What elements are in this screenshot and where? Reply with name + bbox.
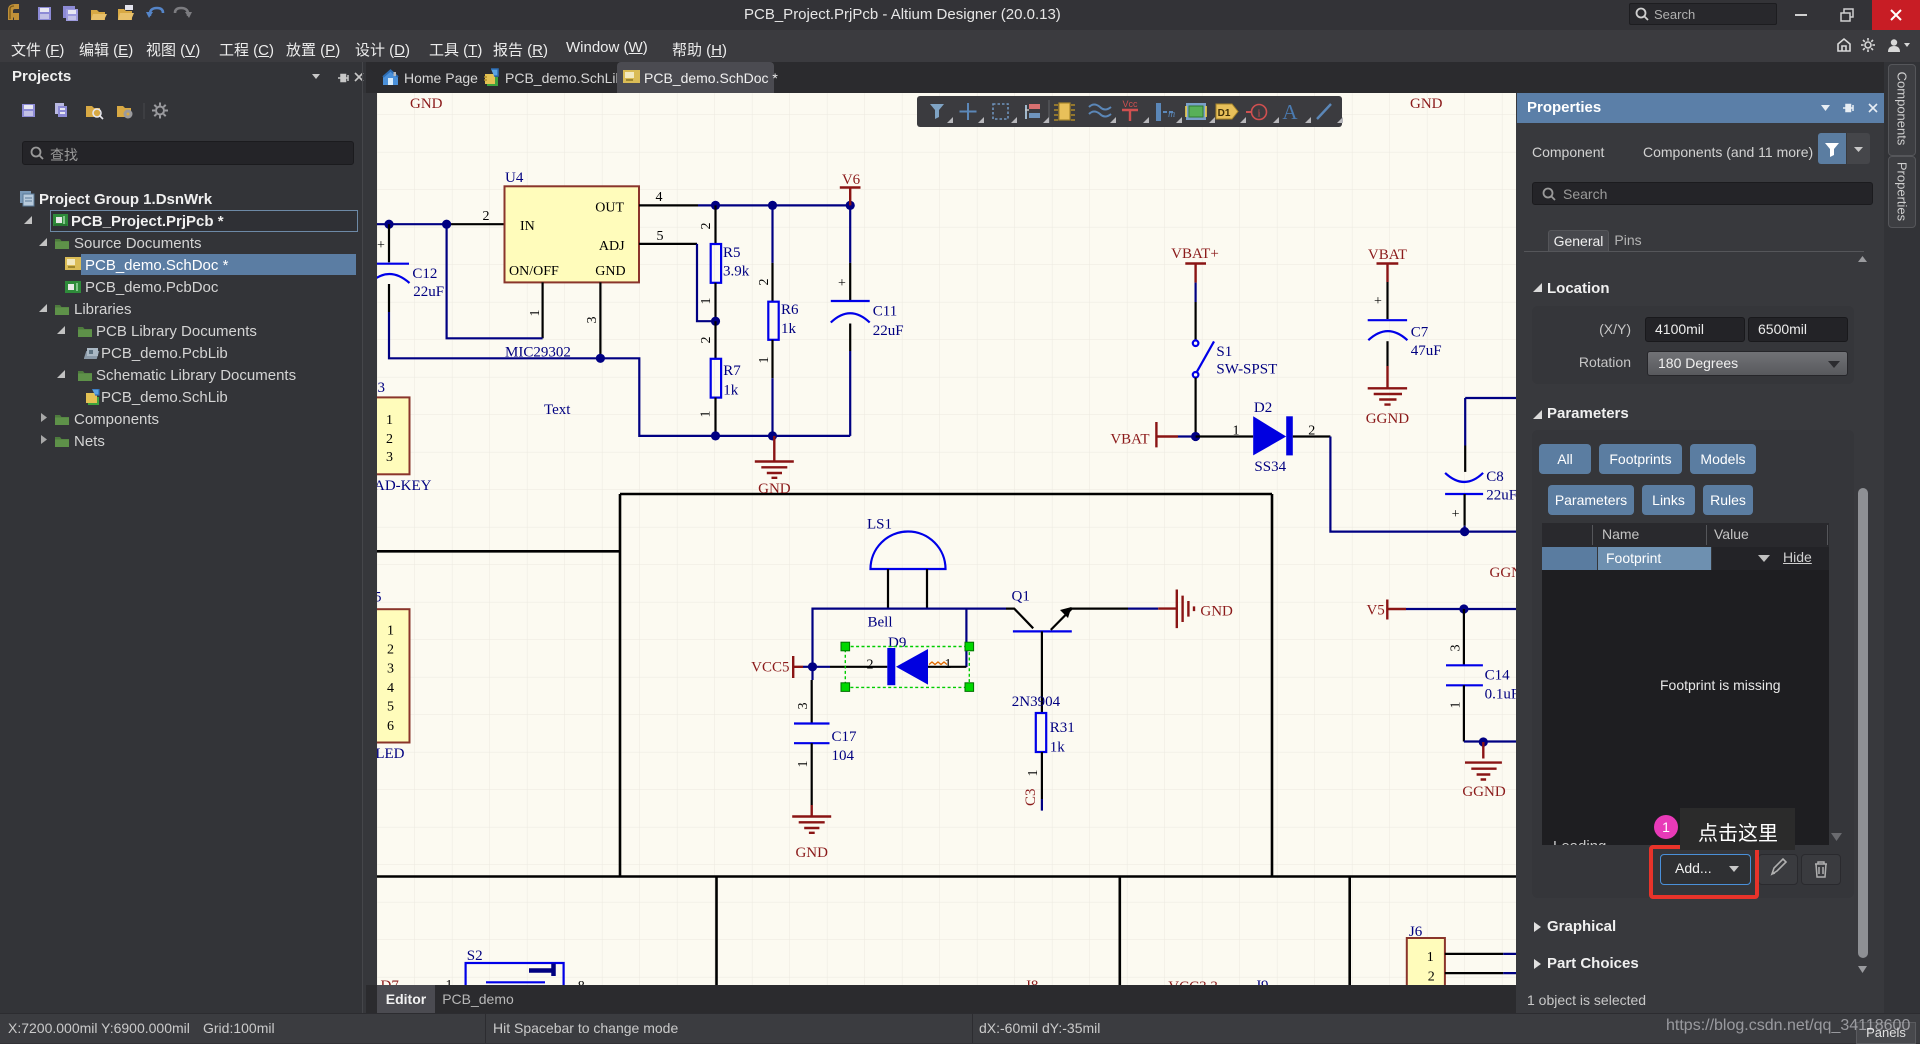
- svg-text:IN: IN: [520, 219, 535, 234]
- svg-text:104: 104: [832, 748, 855, 764]
- svg-text:1: 1: [1026, 770, 1041, 777]
- svg-text:GND: GND: [1410, 96, 1443, 112]
- svg-text:V6: V6: [842, 172, 861, 188]
- svg-text:47uF: 47uF: [1411, 343, 1442, 359]
- svg-text:4: 4: [656, 190, 663, 205]
- svg-text:2: 2: [757, 279, 772, 286]
- svg-text:m: m: [1168, 109, 1175, 120]
- svg-text:1: 1: [945, 657, 952, 672]
- svg-text:2: 2: [699, 223, 714, 230]
- svg-text:U4: U4: [505, 170, 524, 186]
- svg-text:1: 1: [387, 624, 394, 639]
- svg-text:2: 2: [386, 432, 393, 447]
- svg-text:C7: C7: [1411, 325, 1429, 341]
- svg-text:+: +: [377, 238, 385, 253]
- svg-text:C17: C17: [832, 729, 858, 745]
- svg-text:+: +: [838, 276, 846, 291]
- svg-text:5: 5: [387, 700, 394, 715]
- svg-text:VBAT: VBAT: [1368, 247, 1407, 263]
- svg-text:1: 1: [446, 978, 453, 985]
- svg-text:+: +: [1374, 294, 1382, 309]
- svg-text:Text: Text: [544, 402, 571, 418]
- svg-text:OLED: OLED: [377, 746, 405, 762]
- svg-text:J9: J9: [1255, 978, 1268, 985]
- svg-text:3: 3: [1449, 645, 1464, 652]
- svg-text:GGND: GGND: [1366, 411, 1409, 427]
- svg-text:D2: D2: [1254, 400, 1272, 416]
- svg-text:A: A: [1282, 100, 1298, 124]
- svg-text:GND: GND: [410, 96, 443, 112]
- svg-text:1k: 1k: [1050, 740, 1066, 756]
- svg-text:3.9k: 3.9k: [723, 264, 750, 280]
- svg-text:0.1uF: 0.1uF: [1485, 687, 1516, 703]
- svg-text:1: 1: [1449, 702, 1464, 709]
- svg-text:GND: GND: [1200, 604, 1233, 620]
- svg-text:1: 1: [796, 761, 811, 768]
- svg-text:GND: GND: [758, 481, 791, 497]
- svg-text:i: i: [1257, 108, 1260, 120]
- svg-text:1: 1: [1427, 950, 1434, 965]
- svg-text:J8: J8: [1025, 978, 1038, 985]
- svg-text:2: 2: [1428, 970, 1435, 985]
- svg-text:Bell: Bell: [868, 615, 893, 631]
- svg-text:1: 1: [699, 298, 714, 305]
- svg-text:ON/OFF: ON/OFF: [509, 264, 559, 279]
- svg-text:MIC29302: MIC29302: [505, 345, 571, 361]
- svg-text:R5: R5: [723, 245, 741, 261]
- svg-text:VBAT+: VBAT+: [1171, 246, 1219, 262]
- svg-text:4: 4: [387, 681, 394, 696]
- svg-text:2N3904: 2N3904: [1012, 694, 1061, 710]
- svg-text:1: 1: [757, 357, 772, 364]
- svg-text:C12: C12: [412, 266, 437, 282]
- svg-text:GND: GND: [795, 845, 828, 861]
- svg-text:1: 1: [1233, 424, 1240, 439]
- svg-text:R7: R7: [723, 363, 741, 379]
- svg-text:C14: C14: [1485, 668, 1511, 684]
- svg-text:1: 1: [699, 411, 714, 418]
- svg-text:2: 2: [867, 658, 874, 673]
- svg-text:LS1: LS1: [867, 517, 892, 533]
- svg-text:R31: R31: [1050, 720, 1075, 736]
- svg-text:S2: S2: [467, 948, 483, 964]
- svg-text:Q1: Q1: [1012, 589, 1030, 605]
- svg-text:22uF: 22uF: [1486, 488, 1516, 504]
- svg-text:VBAT: VBAT: [1110, 432, 1149, 448]
- svg-text:2: 2: [483, 209, 490, 224]
- svg-text:C8: C8: [1486, 469, 1504, 485]
- svg-text:1: 1: [528, 310, 543, 317]
- svg-text:2: 2: [387, 643, 394, 658]
- svg-text:22uF: 22uF: [413, 284, 444, 300]
- svg-text:D1: D1: [1218, 108, 1231, 119]
- svg-text:AD-KEY: AD-KEY: [377, 478, 432, 494]
- svg-text:22uF: 22uF: [873, 323, 904, 339]
- svg-text:1: 1: [386, 413, 393, 428]
- svg-text:OUT: OUT: [595, 201, 624, 216]
- svg-text:2: 2: [699, 337, 714, 344]
- svg-text:GGND: GGND: [1462, 784, 1505, 800]
- svg-text:ADJ: ADJ: [599, 239, 625, 254]
- svg-text:3: 3: [378, 380, 386, 396]
- svg-text:S1: S1: [1216, 344, 1232, 360]
- svg-text:C3: C3: [1023, 788, 1039, 806]
- svg-text:6: 6: [387, 719, 394, 734]
- svg-text:+: +: [1452, 507, 1460, 522]
- svg-text:3: 3: [585, 317, 600, 324]
- svg-text:1k: 1k: [723, 383, 739, 399]
- svg-text:R6: R6: [781, 302, 799, 318]
- svg-text:5: 5: [377, 590, 382, 606]
- svg-text:3: 3: [386, 450, 393, 465]
- svg-text:C11: C11: [873, 304, 897, 320]
- svg-text:GGND: GGND: [1490, 565, 1517, 581]
- svg-text:SW-SPST: SW-SPST: [1216, 362, 1277, 378]
- svg-text:SS34: SS34: [1254, 459, 1286, 475]
- svg-text:3: 3: [387, 662, 394, 677]
- svg-text:1k: 1k: [781, 321, 797, 337]
- svg-text:5: 5: [657, 229, 664, 244]
- svg-text:Vcc: Vcc: [1122, 99, 1138, 109]
- svg-text:D7: D7: [381, 978, 400, 985]
- svg-text:VCC5: VCC5: [751, 660, 789, 676]
- svg-text:GND: GND: [595, 264, 625, 279]
- svg-text:V5: V5: [1366, 603, 1384, 619]
- svg-text:3: 3: [796, 703, 811, 710]
